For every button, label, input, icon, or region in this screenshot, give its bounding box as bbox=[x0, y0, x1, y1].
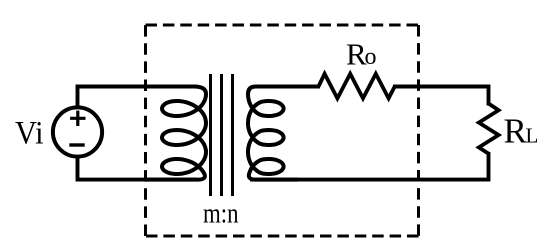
wire secondary top lead to Ro bbox=[296, 85, 320, 89]
svg-text:m:n: m:n bbox=[203, 199, 239, 230]
svg-text:Vi: Vi bbox=[15, 116, 44, 152]
minus polarity mark bbox=[69, 143, 84, 146]
wire from RL to secondary bottom (bottom-right rail) bbox=[250, 152, 489, 180]
voltage source Vi (circle) bbox=[53, 107, 102, 156]
resistor RL (vertical zigzag) bbox=[479, 104, 499, 154]
transformer T1 primary winding (left coil) bbox=[146, 87, 207, 180]
plus polarity mark bbox=[70, 111, 85, 126]
dashed two-port (transformer) boundary box bbox=[146, 25, 419, 236]
wire from Ro to RL (top-right rail and corner) bbox=[393, 87, 489, 106]
wire from Vi- to primary bottom (bottom-left rail) bbox=[78, 156, 197, 180]
svg-text:L: L bbox=[526, 123, 539, 147]
transformer T1 core (three lines) bbox=[211, 74, 233, 196]
svg-text:R: R bbox=[504, 111, 528, 150]
transformer T1 secondary winding (right coil) bbox=[248, 87, 298, 180]
resistor Ro (zigzag) bbox=[319, 74, 395, 99]
wire from Vi+ to primary top (top-left rail) bbox=[78, 87, 197, 109]
svg-text:o: o bbox=[365, 44, 377, 70]
